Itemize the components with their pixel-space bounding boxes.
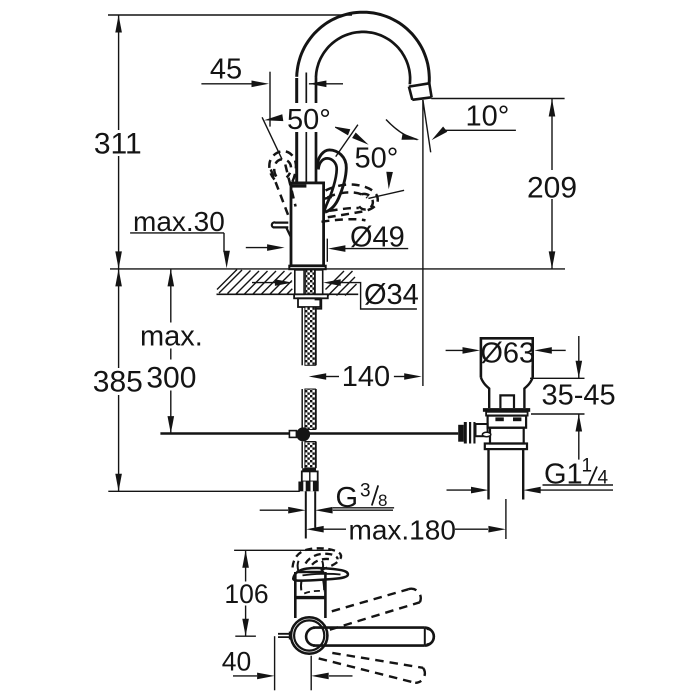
svg-text:140: 140 [342, 361, 390, 393]
dimension 140 line [326, 376, 341, 378]
mounting shank right sleeve [315, 270, 323, 294]
popup rod [160, 432, 458, 435]
drain valve body [488, 416, 526, 428]
G38 fitting band [302, 468, 316, 471]
label 311 [94, 128, 142, 161]
dimension 209 line [551, 99, 553, 269]
drain rod housing [476, 424, 488, 436]
drain valve slots [495, 417, 503, 421]
dashed handle left hole [274, 159, 291, 177]
arrowhead max30 float right [267, 244, 285, 251]
side spout arm right cap [425, 628, 434, 646]
wire 10deg slant line [423, 100, 431, 152]
supply hose upper [302, 307, 316, 365]
drain lower body [490, 428, 524, 444]
svg-text:Ø49: Ø49 [350, 221, 405, 253]
arrowhead 50deg right [386, 172, 393, 190]
arrowhead 40 right [257, 673, 275, 680]
arrowhead 40 left [311, 673, 329, 680]
arrowhead 10deg arc [402, 133, 420, 140]
side solid handle blade [293, 568, 348, 581]
dimension 50deg leader mid [336, 125, 358, 157]
faucet spout outer arc [297, 12, 430, 84]
dashed handle right lever lines [324, 196, 334, 198]
dimension max180 lines [323, 528, 346, 530]
svg-text:35-45: 35-45 [542, 379, 616, 411]
side supply stub [278, 634, 291, 637]
arrowhead 50deg mid upleft [333, 126, 351, 135]
arrowhead G38 right [288, 507, 306, 514]
svg-text:300: 300 [146, 361, 196, 394]
wire 45 extension left [269, 72, 271, 127]
drain knob cap [458, 425, 464, 442]
dashed handle right hole [359, 194, 373, 210]
faucet body top seam bar [292, 184, 307, 187]
dimension 40 lines [233, 675, 257, 677]
svg-text:max.180: max.180 [349, 515, 456, 546]
svg-text:Ø63: Ø63 [480, 338, 535, 370]
side body dome edges [298, 561, 324, 572]
faucet base plate [289, 266, 325, 270]
arrowhead 3545 down [576, 361, 583, 379]
G38 tube [305, 491, 307, 538]
side valve inner circle [294, 620, 324, 650]
arrowhead 209 up [549, 99, 556, 117]
supply hose middle [302, 389, 316, 430]
svg-text:209: 209 [527, 172, 577, 205]
label 300 [146, 360, 196, 395]
label 140 [339, 361, 393, 393]
dimension 50deg leader left [262, 117, 282, 159]
arrowhead max300 bottom down [168, 416, 175, 434]
faucet riser tube right edge [315, 78, 318, 183]
svg-text:40: 40 [222, 646, 251, 676]
dimension dia49 extension [326, 239, 328, 262]
arrowhead dia63 right [463, 347, 481, 354]
arrowhead 50deg mid downright [352, 133, 369, 145]
arrowhead 311 top up [115, 15, 122, 33]
svg-text:106: 106 [224, 579, 268, 609]
arrowhead 106 down [242, 619, 249, 637]
label 385 [93, 366, 143, 399]
dimension dia63 lines [446, 349, 463, 351]
dimension 45 line [201, 83, 252, 85]
dimension 40 extensions [274, 636, 276, 690]
arrowhead dia49 left [328, 245, 346, 252]
side dome dashed base [304, 591, 324, 594]
svg-text:385: 385 [93, 366, 143, 399]
drain nut band [485, 444, 527, 450]
arrowhead max30 down [223, 251, 230, 269]
dimension max30 underline [130, 232, 224, 234]
dimension 106 top extension [234, 549, 331, 551]
dimension G1quarter lines [447, 489, 472, 491]
mounting clip [315, 300, 322, 310]
svg-text:10°: 10° [466, 101, 510, 133]
drain tailpipe [487, 449, 489, 499]
arrowhead dia34 right [275, 279, 293, 286]
arrowhead 50deg left [264, 114, 283, 121]
drain knurled knob [464, 422, 476, 444]
dashed handle left lever lines [271, 170, 290, 220]
arrowhead dia34 left [323, 279, 341, 286]
dimension 10deg leader [444, 129, 516, 131]
svg-text:8: 8 [378, 491, 387, 510]
svg-text:Ø34: Ø34 [364, 279, 419, 311]
wire deck counter line [110, 268, 565, 270]
solid loop handle outer [317, 150, 346, 212]
dimension 50deg leader right [368, 190, 404, 198]
arrowhead G114 right [471, 487, 489, 494]
side solid handle slit [303, 574, 341, 576]
faucet spout inner arc [316, 32, 410, 84]
label max of max300 [138, 321, 204, 353]
arrowhead 385 bottom down [115, 474, 122, 492]
faucet lever tab [272, 222, 289, 227]
arrowhead G38 left [315, 507, 333, 514]
dimension dia34 left line [252, 282, 281, 284]
dimension 10deg arc arrow [386, 120, 418, 140]
arrowhead max180 left [306, 526, 324, 533]
arrowhead 45 left [309, 81, 327, 88]
arrowhead 140 right [404, 373, 422, 380]
arrowhead 209 down [549, 251, 556, 269]
G38 knurled nut [298, 482, 318, 492]
supply hose lower [302, 442, 316, 469]
wire bottom reference line 385 [108, 490, 299, 492]
popup rod clamp [289, 431, 296, 438]
arrowhead 10deg leader [432, 127, 448, 141]
dimension 385 line [118, 269, 120, 491]
G38 fitting body [302, 471, 318, 481]
dimension G38 underline [333, 507, 394, 509]
wire 45 mid line [305, 73, 307, 183]
label 209 [527, 170, 577, 205]
svg-text:50°: 50° [355, 143, 399, 175]
mounting washer [294, 294, 328, 298]
dimension 106 bottom extension [235, 635, 256, 637]
svg-text:3: 3 [360, 481, 371, 502]
label 50deg second [353, 143, 403, 175]
arrowhead 3545 up [576, 414, 583, 432]
OBJECT DRAWING [160, 12, 532, 683]
label dia63 [480, 338, 535, 370]
dimension 35-45 line [578, 336, 580, 378]
mounting shank left sleeve [295, 270, 304, 294]
svg-text:45: 45 [210, 54, 242, 86]
spout aerator collar [409, 83, 432, 100]
mounting shank threaded stud [306, 270, 315, 294]
side spout arm left cap [306, 628, 315, 646]
label 50deg first [285, 103, 335, 136]
wire drain tail centerline [505, 499, 507, 539]
side dashed arm up [330, 589, 421, 630]
dimension 311 line [118, 15, 120, 269]
arrowhead 106 up [242, 550, 249, 568]
popup rod ball joint [296, 427, 310, 441]
wire deck bottom line [217, 293, 359, 295]
drain washer [483, 408, 530, 412]
svg-text:50°: 50° [287, 104, 331, 136]
svg-text:max.: max. [140, 321, 203, 353]
dimension 35-45 extensions [530, 377, 585, 379]
faucet lever strut [286, 227, 291, 236]
wire top extension line [108, 14, 352, 16]
svg-text:1: 1 [582, 456, 593, 477]
drain rod screw [482, 432, 490, 436]
dimension max30 floating leader [246, 247, 274, 249]
arrowhead 311 bottom down [115, 251, 122, 269]
dimension 106 line [245, 550, 247, 636]
arrowhead max180 right [488, 526, 506, 533]
ARROWHEADS [115, 15, 582, 679]
side dashed arm down [319, 653, 425, 683]
arrowhead 140 left [309, 373, 327, 380]
dimension G38 lines [260, 509, 288, 511]
side valve outer circle [291, 617, 327, 653]
dimension dia49 leader [344, 248, 408, 250]
dimension max300 line [170, 269, 172, 434]
svg-text:311: 311 [94, 128, 142, 161]
svg-text:G1: G1 [544, 459, 583, 491]
faucet riser tube left edge [295, 78, 298, 183]
dimension G1quarter underline [543, 484, 614, 486]
dimension 209 top extension [431, 98, 564, 100]
drain upper body [486, 412, 527, 416]
side handle dome [301, 579, 324, 591]
dashed handle right loop [322, 184, 378, 221]
side body column [295, 572, 325, 618]
svg-text:max.30: max.30 [133, 206, 225, 237]
drain flange [481, 338, 533, 377]
arrowhead 385 top up [115, 269, 122, 287]
solid loop handle inner [318, 158, 336, 211]
svg-text:4: 4 [598, 468, 609, 489]
faucet body [291, 183, 324, 266]
mounting nut [298, 298, 320, 307]
deck hatching [217, 270, 357, 296]
drain taper [481, 378, 533, 409]
dashed handle left loop [269, 151, 296, 219]
side dashed handle rotated [293, 548, 342, 570]
arrowhead G114 left [523, 487, 541, 494]
arrowhead max300 top up [168, 269, 175, 287]
svg-text:G: G [336, 482, 359, 514]
dimension dia34 right bent leader [339, 283, 417, 309]
side spout arm [313, 628, 425, 646]
arrowhead dia63 left [534, 347, 552, 354]
arrowhead 45 right [252, 81, 270, 88]
drain adjuster knob [500, 395, 514, 408]
label 106 [223, 579, 270, 609]
wire spout outlet extension vertical [422, 100, 424, 386]
dashed handle right inner edge [328, 192, 368, 197]
